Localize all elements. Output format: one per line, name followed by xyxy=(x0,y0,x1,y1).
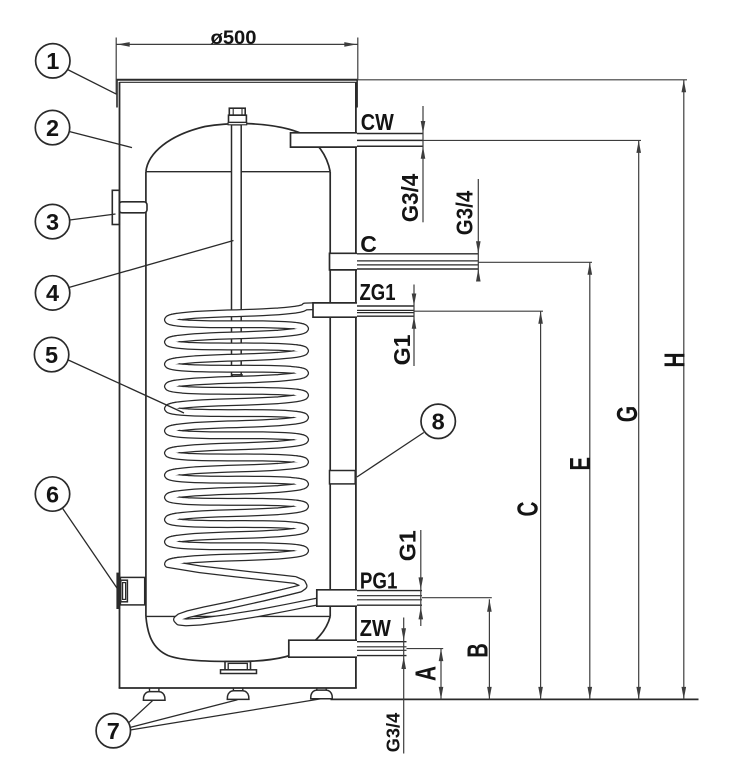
coil tube segment 14 xyxy=(168,450,304,461)
part6 inner box xyxy=(120,577,144,605)
leader line callout 8 xyxy=(357,433,424,478)
dim H vertical xyxy=(683,80,685,700)
dim G3/4 C vertical xyxy=(477,179,479,277)
anode rod end xyxy=(232,375,242,382)
casing lid right fold xyxy=(356,80,358,108)
foot at x=238.1 xyxy=(232,688,234,691)
svg-text:ZW: ZW xyxy=(360,615,391,641)
casing left wall xyxy=(119,82,121,688)
CW pipe xyxy=(357,133,423,135)
leader line callout 4 xyxy=(69,241,234,288)
svg-text:5: 5 xyxy=(45,342,58,368)
dim C vertical xyxy=(540,311,542,699)
dim E vertical xyxy=(589,262,591,699)
CW socket xyxy=(291,133,358,147)
svg-text:A: A xyxy=(410,666,442,681)
svg-text:6: 6 xyxy=(46,481,59,507)
coil tube segment 9 xyxy=(169,393,305,408)
coil tube segment 7 xyxy=(169,370,305,385)
casing lid left fold xyxy=(116,80,118,108)
foot at x=154.2 xyxy=(149,688,151,691)
part3 inner stub xyxy=(119,202,147,213)
extension line ZG1 to C-dim xyxy=(414,310,543,312)
coil tube segment 10 xyxy=(168,406,304,417)
ZW socket xyxy=(289,640,357,657)
anode nut cap xyxy=(229,108,245,115)
tank top dome xyxy=(146,124,330,172)
C pipe xyxy=(357,253,478,255)
svg-text:CW: CW xyxy=(361,109,394,135)
dim B vertical xyxy=(488,599,490,699)
svg-text:E: E xyxy=(565,457,597,471)
svg-text:B: B xyxy=(463,643,495,658)
callout circle 4 xyxy=(35,276,69,310)
coil tube segment 12 xyxy=(168,428,304,439)
dim G1 ZG1 vertical xyxy=(413,285,415,367)
coil tube segment 18 xyxy=(168,494,304,505)
leader line callout 2 xyxy=(69,132,132,148)
svg-text:ZG1: ZG1 xyxy=(360,279,396,305)
coil tube segment 22 xyxy=(168,539,304,550)
svg-text:H: H xyxy=(660,353,692,368)
extension line CW to G xyxy=(423,139,641,141)
svg-text:C: C xyxy=(360,231,377,257)
coil tube segment 17 xyxy=(169,481,305,496)
coil tube segment 21 xyxy=(169,526,305,541)
part6 bracket xyxy=(121,580,128,602)
dim G3/4 ZW vertical xyxy=(403,618,405,754)
leader line callout 7 xyxy=(128,701,153,724)
coil tube segment 4 xyxy=(168,339,304,350)
callout circle 1 xyxy=(36,44,70,78)
callout circle 8 xyxy=(421,404,455,438)
coil tube segment 11 xyxy=(169,415,305,430)
dim ø500 right extension xyxy=(357,38,359,80)
extension line C to E xyxy=(478,261,592,263)
coil tube segment 23 xyxy=(169,548,305,563)
coil tube segment 26 xyxy=(177,580,332,622)
tank left wall xyxy=(145,172,147,617)
svg-text:PG1: PG1 xyxy=(360,568,398,594)
coil tube segment 25 xyxy=(168,560,304,598)
svg-text:G: G xyxy=(612,406,644,423)
svg-text:G3/4: G3/4 xyxy=(452,191,478,236)
coil tube segment 20 xyxy=(168,517,304,528)
part6 flange bar xyxy=(116,573,120,609)
callout circle 7 xyxy=(96,714,130,748)
drain flange xyxy=(221,670,257,674)
tank top weld seam xyxy=(146,171,330,173)
leader line callout 6 xyxy=(62,508,117,589)
extension line casing top to H xyxy=(358,79,687,81)
foot at x=321.5 xyxy=(316,688,318,691)
dim G vertical xyxy=(638,140,640,699)
svg-text:1: 1 xyxy=(46,48,59,74)
svg-text:8: 8 xyxy=(432,409,445,435)
drain cap xyxy=(225,662,251,670)
svg-text:2: 2 xyxy=(46,115,59,141)
ground baseline xyxy=(331,698,699,700)
coil tube segment 6 xyxy=(168,361,304,372)
svg-text:4: 4 xyxy=(46,280,59,306)
coil tube segment 24 xyxy=(168,561,177,564)
svg-text:G3/4: G3/4 xyxy=(397,174,423,223)
PG1 pipe xyxy=(357,590,422,592)
svg-text:C: C xyxy=(513,502,545,517)
ZG1 pipe xyxy=(357,305,414,307)
coil tube segment 13 xyxy=(169,437,305,452)
svg-text:ø500: ø500 xyxy=(211,27,257,49)
extension line PG1 to B xyxy=(422,597,492,599)
svg-text:G1: G1 xyxy=(395,530,421,561)
dim A vertical xyxy=(440,649,442,700)
ZW pipe xyxy=(357,641,407,643)
anode nut body xyxy=(229,115,247,122)
dim G3/4 CW vertical xyxy=(422,106,424,222)
leader line callout 1 xyxy=(68,70,117,95)
coil tube segment 16 xyxy=(168,472,304,483)
anode rod xyxy=(232,125,242,376)
leader line callout 3 xyxy=(70,214,116,220)
part8 sensor fitting xyxy=(330,471,356,484)
coil tube segment 19 xyxy=(169,504,305,519)
coil tube segment 5 xyxy=(169,348,305,363)
coil tube segment 8 xyxy=(168,383,304,394)
callout circle 5 xyxy=(34,337,68,371)
PG1 socket xyxy=(317,590,357,606)
callout circle 3 xyxy=(35,204,69,238)
ZG1 socket xyxy=(313,303,357,317)
tank bottom dome xyxy=(146,616,330,661)
C socket xyxy=(330,253,358,270)
coil tube segment 15 xyxy=(169,459,305,474)
dim ø500 line xyxy=(116,43,358,45)
callout circle 2 xyxy=(35,110,69,144)
tank right wall xyxy=(329,172,331,617)
svg-text:7: 7 xyxy=(107,718,120,744)
coil tube segment 1 xyxy=(169,306,313,319)
tank bottom weld seam xyxy=(146,615,330,617)
dim ø500 left extension xyxy=(115,38,117,94)
casing right wall xyxy=(355,82,357,688)
casing lid top xyxy=(116,79,358,81)
svg-text:3: 3 xyxy=(46,209,59,235)
anode nut washer xyxy=(228,123,247,125)
part3 outer plate xyxy=(112,190,119,224)
coil tube segment 3 xyxy=(169,326,305,341)
extension line ZW to A xyxy=(407,648,444,650)
leader line callout 5 xyxy=(68,360,184,413)
dim G1 PG1 vertical xyxy=(420,530,422,626)
coil tube segment 2 xyxy=(168,317,304,328)
svg-text:G3/4: G3/4 xyxy=(383,712,404,752)
callout circle 6 xyxy=(35,477,69,511)
svg-text:G1: G1 xyxy=(389,334,415,365)
casing bottom xyxy=(119,687,357,689)
